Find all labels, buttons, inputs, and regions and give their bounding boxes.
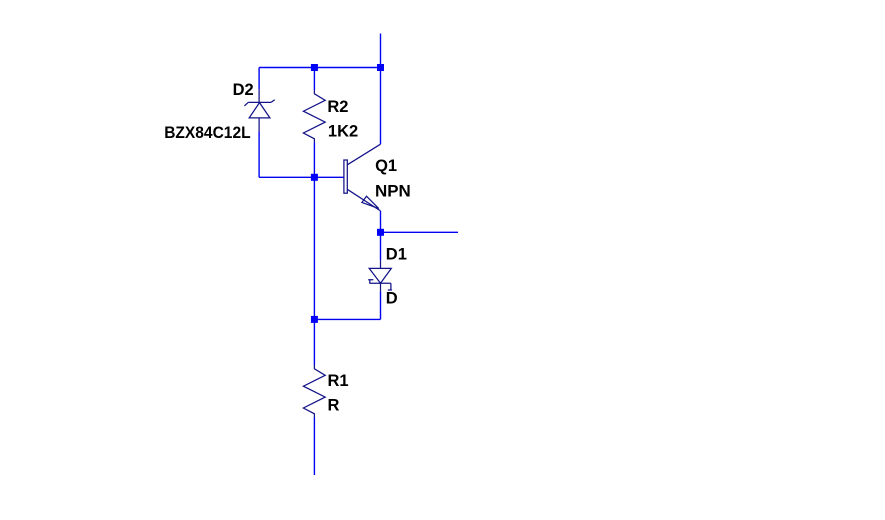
wire emitter node to D1	[380, 232, 382, 260]
wire long vertical base node down	[313, 177, 315, 319]
svg-text:R1: R1	[328, 372, 349, 390]
wire emitter vertical	[380, 211, 382, 232]
wire right horizontal output	[381, 231, 459, 233]
svg-text:Q1: Q1	[375, 157, 397, 175]
svg-text:D: D	[386, 290, 398, 308]
svg-text:BZX84C12L: BZX84C12L	[164, 124, 250, 142]
wire top horizontal	[259, 67, 380, 69]
wire D1 bottom	[380, 291, 382, 319]
svg-text:D2: D2	[233, 81, 254, 99]
wire bottom horizontal	[314, 318, 380, 320]
svg-text:R2: R2	[327, 98, 348, 116]
svg-text:1K2: 1K2	[328, 123, 358, 141]
wire horizontal D2 to base node	[259, 176, 314, 178]
wire left vertical upper (to D2 cathode)	[258, 68, 260, 90]
transistor Q1	[344, 144, 381, 211]
svg-text:D1: D1	[386, 245, 407, 263]
svg-text:NPN: NPN	[375, 182, 411, 200]
resistor R2	[303, 90, 325, 143]
junction node bottom	[311, 316, 318, 323]
zener diode D2	[244, 89, 274, 131]
junction node top collector	[377, 64, 384, 71]
wire base node to Q1 base	[314, 176, 344, 178]
junction node top R2	[311, 64, 318, 71]
wire R2 bottom	[313, 143, 315, 178]
wire R1 bottom stub	[313, 418, 315, 476]
wire left vertical lower (from D2 anode)	[258, 132, 260, 178]
wire collector vertical	[380, 68, 382, 145]
diode D1	[368, 260, 392, 291]
svg-text:R: R	[328, 397, 340, 415]
junction node emitter output	[377, 229, 384, 236]
wire top stub to power	[380, 34, 382, 68]
wire R2 top	[313, 68, 315, 91]
wire to R1 top	[313, 319, 315, 365]
resistor R1	[303, 365, 325, 418]
junction node base	[311, 174, 318, 181]
